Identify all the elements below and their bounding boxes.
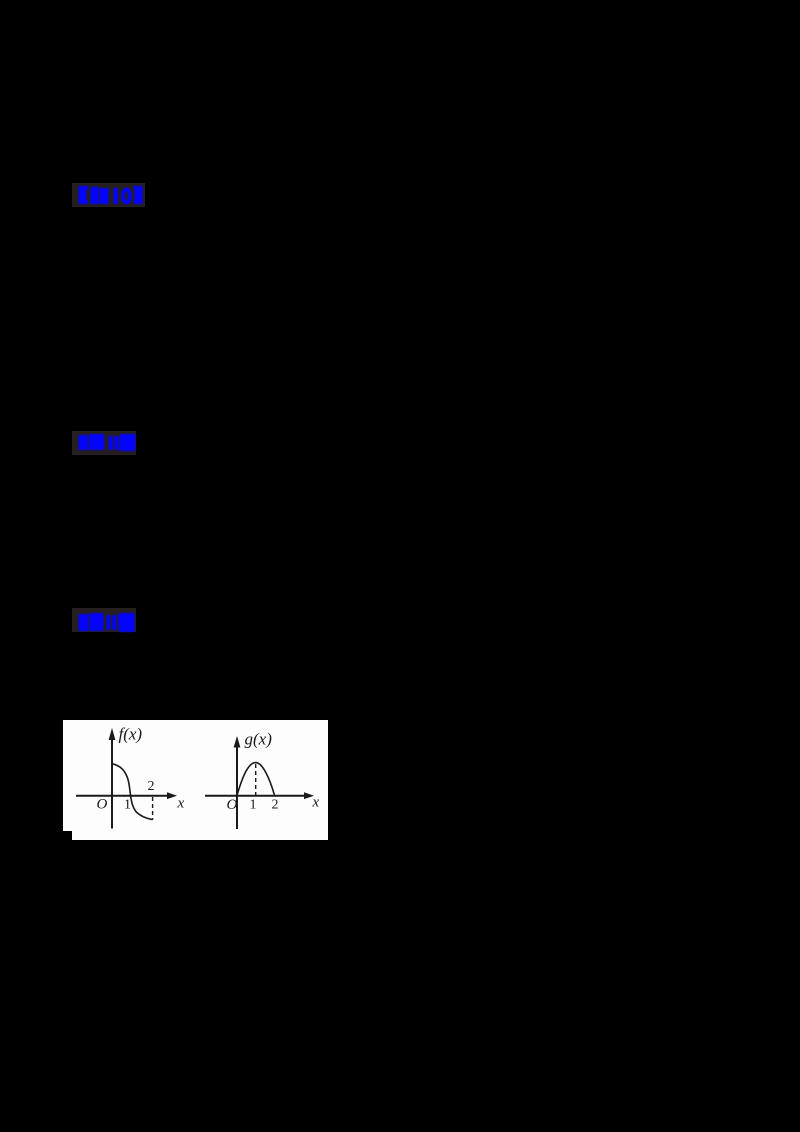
svg-text:1: 1 — [250, 798, 257, 813]
header example 10 — [72, 183, 145, 207]
header example 12 — [72, 608, 136, 632]
left graph y-axis — [111, 737, 113, 829]
left f curve — [113, 764, 153, 820]
left graph x-axis — [76, 795, 169, 797]
svg-text:x: x — [177, 796, 185, 812]
svg-text:g(x): g(x) — [245, 730, 273, 749]
svg-text:O: O — [227, 797, 238, 813]
svg-text:O: O — [97, 797, 108, 813]
right dashed at peak — [255, 764, 257, 795]
left dashed at x=2 — [152, 797, 154, 820]
figure box with two graphs — [63, 720, 328, 840]
black notch bottom-left of figure — [63, 831, 72, 840]
right g curve — [237, 763, 275, 796]
right graph y-axis — [236, 743, 238, 829]
svg-text:2: 2 — [148, 779, 155, 794]
svg-text:x: x — [312, 795, 320, 811]
header example 11 — [72, 431, 136, 455]
svg-text:f(x): f(x) — [119, 725, 143, 744]
svg-text:2: 2 — [272, 798, 279, 813]
arrowheads — [109, 728, 116, 740]
svg-text:1: 1 — [124, 798, 131, 813]
right graph x-axis — [205, 795, 306, 797]
